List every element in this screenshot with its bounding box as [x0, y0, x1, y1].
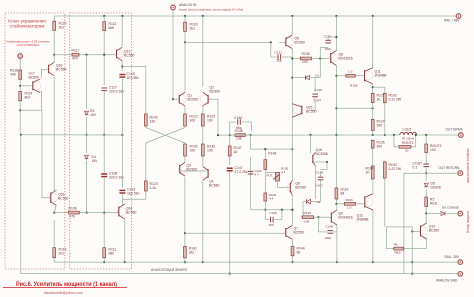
wire: Q6 emitter down: [291, 195, 293, 210]
terminal protection out: [458, 211, 463, 216]
svg-text:C145: C145: [270, 211, 278, 215]
wire: ROUT1 right riser: [415, 135, 417, 147]
junction R120/Q5 base line: [184, 41, 186, 43]
wire: C136 jog: [321, 169, 328, 171]
diode D6 C3EN5E: [441, 212, 445, 216]
wire: Q8col to R131: [336, 203, 343, 205]
wire: [319, 231, 328, 233]
junction R124 bottom: [372, 107, 374, 109]
svg-text:R117: R117: [72, 49, 80, 53]
junction left rail corner: [20, 134, 22, 136]
capacitor C122: [248, 171, 254, 174]
wire: return left drop: [403, 173, 405, 273]
junction C117 top: [103, 54, 105, 56]
wire: R144 to rail: [292, 257, 294, 262]
junction C121 tap: [270, 41, 272, 43]
junction feedback/R147: [229, 134, 231, 136]
resistor R144: [291, 245, 294, 257]
wire: X to R123: [145, 143, 147, 180]
resistor R123: [144, 180, 147, 193]
resistor R140: [201, 143, 204, 158]
wire: to Q10 base column: [386, 226, 412, 228]
capacitor COUT: [423, 164, 429, 167]
wire: R142 to Q3: [184, 158, 186, 163]
resistor R148: [264, 158, 267, 171]
transistor Q7 BC550: [285, 226, 293, 240]
capacitor C145: [271, 217, 274, 223]
junction mid rail/D3: [85, 134, 87, 136]
resistor R120: [184, 21, 187, 33]
wire: R132 to bias line: [264, 203, 266, 210]
resistor Rh: [392, 247, 405, 250]
wire: to Q17 emitter: [20, 109, 41, 111]
junction Q13 emitter: [121, 65, 123, 67]
wire: D5 to R2: [425, 189, 427, 196]
wire: D6 to terminal: [447, 213, 459, 215]
wire: to Q9 base: [319, 216, 331, 218]
wire: R111 to bottom rail: [103, 259, 105, 262]
transistor Q5 BC560: [285, 35, 293, 49]
terminal RAIL -28V: [458, 260, 463, 265]
junction out rail cross: [335, 134, 337, 136]
wire: riser to VAS line: [250, 135, 252, 149]
resistor ROUT2: [425, 143, 428, 155]
wire: R2 to node: [425, 208, 427, 214]
svg-text:LOUT: LOUT: [403, 128, 412, 132]
junction bias line/R132: [264, 209, 266, 211]
terminal OUT DRIVE: [459, 133, 464, 138]
wire: to R147: [229, 135, 231, 145]
wire: C146 left riser: [229, 122, 231, 135]
junction C145 right: [281, 209, 283, 211]
resistor R145: [301, 216, 315, 219]
wire: diagonal R143 to R142: [146, 128, 185, 144]
svg-text:Ключ управлениястабилизатором: Ключ управлениястабилизатором: [8, 19, 46, 29]
junction C136: [326, 161, 328, 163]
wire: Q19 emitter long down to Q18: [53, 77, 55, 192]
wire: emitter to R143 column: [122, 66, 146, 68]
wire: ROUT1 left riser: [393, 135, 395, 147]
junction out rail/Q16: [309, 134, 311, 136]
wire: R114 down: [19, 102, 21, 135]
junction bias/Q7: [291, 209, 293, 211]
wire: R121 to R140: [202, 128, 204, 143]
transistor Q6 BC560: [287, 180, 295, 195]
wire: C147 to analog gnd: [229, 171, 231, 274]
wire: Q10 base stub: [412, 230, 420, 232]
junction bias line: [103, 212, 105, 214]
capacitor C143: [119, 75, 125, 78]
junction R128 tap: [335, 75, 337, 77]
transistor Q9 BC64016: [331, 210, 337, 225]
svg-text:150: 150: [269, 223, 274, 227]
svg-text:56p: 56p: [236, 126, 242, 130]
resistor R122: [184, 113, 187, 128]
svg-text:1.0: 1.0: [347, 206, 352, 210]
wire: R123 bottom: [145, 193, 147, 200]
wire: C146 right: [242, 121, 252, 123]
junction VAS line: [291, 148, 293, 150]
wire: R147 to C147: [229, 158, 231, 166]
junction R114/Q17 emitter: [19, 109, 21, 111]
junction R131 tap: [335, 203, 337, 205]
wire: bias return line: [336, 107, 372, 109]
wire: R118 to R114: [19, 81, 21, 90]
svg-text:470: 470: [72, 57, 78, 61]
wire: bias line: [54, 212, 118, 214]
resistor R143: [144, 113, 147, 128]
junction D6 line: [425, 212, 427, 214]
svg-text:C125: C125: [324, 35, 332, 39]
svg-text:100: 100: [302, 60, 308, 64]
junction rail/Q13: [121, 15, 123, 17]
wire: analog ground rail: [21, 273, 459, 275]
resistor R131: [343, 202, 357, 205]
wire: C117 to mid rail: [103, 91, 105, 135]
svg-text:ANALOG GND: ANALOG GND: [436, 278, 458, 282]
transistor Q10 BC550: [419, 223, 427, 239]
wire: Q17 collector to Q19 base: [41, 69, 43, 78]
wire: to D5: [425, 173, 427, 181]
wire: C143 to C123: [121, 77, 123, 187]
wire: C136 to D2 line: [320, 180, 322, 202]
wire: Q1 base stub: [173, 98, 179, 100]
capacitor C146: [238, 119, 241, 125]
wire: C125 bottom: [320, 47, 328, 49]
junction D4/bias line: [86, 212, 88, 214]
capacitor C125: [325, 40, 331, 43]
svg-text:470: 470: [70, 215, 76, 219]
svg-text:Rh: Rh: [394, 243, 398, 247]
transistor Q12 2N6488: [365, 194, 373, 210]
junction D1 tap: [291, 77, 293, 79]
wire: R148 to R132: [264, 171, 266, 192]
svg-text:блоку защиты: блоку защиты: [466, 210, 470, 233]
capacitor C136: [318, 177, 324, 180]
svg-text:150p: 150p: [325, 236, 332, 240]
resistor R126: [371, 139, 374, 150]
wire: D3 to mid rail: [86, 117, 88, 135]
wire: Q5em to R135: [294, 58, 299, 60]
svg-text:OUT RETURN: OUT RETURN: [439, 166, 461, 170]
wire: R112 down to C117: [103, 32, 105, 85]
wire: node down to D3: [86, 55, 88, 109]
dashed block border: stabilizer key box: [5, 13, 65, 269]
wire: R128 to Q11 base: [357, 75, 364, 77]
capacitor C147: [227, 168, 233, 171]
wire: to Q16 collector: [310, 135, 312, 154]
wire: mid horizontal rail left: [21, 134, 123, 136]
terminal OUT RETURN: [458, 171, 463, 176]
svg-text:C148: C148: [326, 225, 334, 229]
junction analog gnd: [411, 273, 413, 275]
wire: to R103 top: [373, 86, 385, 88]
wire: C145 right riser: [281, 210, 283, 220]
wire: diagonal R122 to R123 column: [146, 128, 185, 144]
svg-text:RAIL +28V: RAIL +28V: [444, 19, 460, 23]
wire: to C138: [314, 78, 316, 92]
wire: R131 to Q12 base: [357, 203, 364, 205]
wire: Q5 base line: [185, 41, 271, 43]
resistor R124: [371, 92, 374, 104]
transistor Q4 BC560 (mirrored): [200, 167, 208, 181]
wire: R120 down: [184, 33, 186, 43]
wire: Q7 collector up: [292, 210, 294, 226]
svg-text:10: 10: [405, 149, 409, 153]
junction rail/Q2: [202, 15, 204, 17]
svg-text:акустический клемник: акустический клемник: [466, 148, 470, 183]
svg-text:13k: 13k: [236, 137, 242, 141]
wire: [265, 219, 269, 221]
trimmer PUT/R130: [273, 173, 280, 182]
resistor R2: [425, 196, 428, 208]
wire: long vertical to Q18 base: [41, 110, 43, 197]
wire: Q8 emitter long column: [335, 66, 337, 204]
wire: Q18 emitter: [54, 206, 56, 213]
wire: C108 to R111: [103, 177, 105, 246]
junction R135 tap: [291, 57, 293, 59]
wire: down to Q1 collector: [184, 42, 186, 92]
junction Q1 base: [172, 98, 174, 100]
wire: out rail to OUT DRIVE: [417, 134, 459, 136]
resistor R132: [264, 192, 267, 203]
resistor R141: [184, 245, 187, 259]
transistor Q3 BC560: [178, 162, 186, 176]
wire: COUT down: [425, 167, 427, 173]
junction analog gnd/C147: [229, 273, 231, 275]
wire: feedback line left: [218, 134, 234, 136]
wire: [303, 201, 307, 203]
wire: rail to Q8 collector: [335, 16, 337, 51]
wire: R103 top lead: [384, 87, 386, 92]
wire: R140 to Q4: [202, 158, 204, 167]
resistor R114: [19, 90, 22, 102]
wire: R145 to Q9 base: [315, 216, 319, 218]
wire: to D1: [292, 77, 304, 79]
wire: Q8 col to R128: [336, 75, 344, 77]
wire: to Q10 collector: [425, 214, 427, 224]
wire: down to R143: [145, 67, 147, 113]
capacitor C138: [312, 94, 318, 97]
wire: bias to Q14 base: [117, 212, 118, 214]
wire: rail to Q13 collector: [121, 16, 123, 47]
wire: Q7 base line: [185, 232, 285, 234]
resistor R117: [71, 53, 81, 56]
wire: rail to Q11 collector: [372, 16, 374, 68]
wire: bottom -28V rail: [54, 261, 458, 263]
svg-text:7R 12mH: 7R 12mH: [402, 136, 415, 140]
wire: Q18 base: [42, 197, 50, 199]
junction bottom rail/Q4: [202, 261, 204, 263]
transistor Q15 BC550 (mirrored): [292, 104, 302, 117]
wire: D1 right: [315, 77, 320, 79]
junction OUT RETURN: [425, 172, 427, 174]
wire: Q5 emitter column: [291, 49, 293, 150]
zener D2: [307, 199, 311, 203]
resistor R135: [299, 57, 313, 60]
wire: Q15 base stub: [309, 109, 316, 111]
transistor Q1 BC550: [178, 92, 186, 106]
svg-text:R128: R128: [350, 84, 358, 88]
svg-text:100: 100: [304, 219, 309, 223]
inductor LOUT: [400, 132, 417, 135]
wire: Q16 emitter down: [314, 166, 316, 199]
wire: C136 riser: [326, 162, 328, 170]
wire: output rail mid: [234, 134, 400, 136]
junction ROUT2 top: [425, 134, 427, 136]
junction feedback/C122 column: [250, 134, 252, 136]
wire: terminal to R118: [19, 59, 21, 69]
wire: RH12 column down: [385, 227, 387, 249]
wire: [264, 151, 266, 159]
junction C148 tap: [317, 216, 319, 218]
junction bottom rail/R111: [103, 261, 105, 263]
transistor Q16 BC3068: [313, 152, 316, 165]
svg-text:АНАЛОГОВАЯ ЗЕМЛЯ: АНАЛОГОВАЯ ЗЕМЛЯ: [151, 268, 187, 272]
svg-text:C138: C138: [315, 88, 323, 92]
wire: Q17 emitter down: [41, 91, 43, 111]
wire: Q2 emitter to R121: [202, 106, 204, 113]
junction out rail/R103: [384, 134, 386, 136]
wire: Q11 emitter down: [372, 84, 374, 92]
svg-text:R145: R145: [304, 211, 312, 215]
junction feedback/Q2 base: [217, 134, 219, 136]
wire: Q8col to Q9 collector: [336, 205, 338, 210]
wire: VAS horizontal: [251, 148, 293, 150]
wire: to R141: [184, 235, 186, 246]
resistor R116: [53, 246, 56, 259]
wire: [320, 171, 322, 177]
wire: to trimmer: [265, 172, 277, 174]
wire: C138 to Q15 base: [314, 97, 316, 110]
svg-text:R106: R106: [69, 206, 77, 210]
svg-text:RES: RES: [395, 250, 401, 254]
wire: R115 to node: [53, 32, 55, 55]
wire: R126 to R114: [372, 150, 374, 165]
resistor R121: [201, 113, 204, 128]
junction R148 top: [264, 148, 266, 150]
capacitor C148: [328, 231, 334, 234]
wire: trimmer down: [277, 181, 279, 187]
wire: Q9 emitter to rail: [336, 225, 338, 262]
wire: left vertical to analog gnd: [20, 135, 22, 274]
wire: [333, 231, 337, 233]
resistor R128: [344, 74, 356, 77]
junction Q10 base: [411, 230, 413, 232]
wire: to Q6 base: [278, 187, 290, 189]
wire: down to analog gnd: [411, 227, 413, 274]
svg-text:R131: R131: [346, 198, 354, 202]
wire: rail to Q5 collector: [291, 16, 293, 35]
wire: Q2 base right: [209, 98, 218, 100]
svg-text:PUT: PUT: [267, 174, 273, 178]
wire: rail to R112: [103, 16, 105, 20]
junction D1 column: [319, 57, 321, 59]
junction bottom rail: [411, 261, 413, 263]
transistor Q8 BC63916: [329, 51, 337, 66]
wire: C122 column: [250, 157, 252, 210]
terminal +12V internal: [18, 54, 23, 59]
terminal ANALOG GND: [458, 272, 463, 277]
junction rail/Q8: [335, 15, 337, 17]
junction ROUT1 left: [393, 134, 395, 136]
resistor R112: [103, 20, 106, 32]
capacitor C121: [278, 54, 281, 60]
wire: [311, 201, 321, 203]
wire: [275, 219, 282, 221]
svg-text:ANALOG IN: ANALOG IN: [179, 3, 197, 7]
wire: R123/C123 join: [122, 198, 145, 200]
resistor R119: [335, 187, 338, 201]
svg-text:ROUT1: ROUT1: [402, 141, 414, 145]
wire: C125 to base node: [319, 52, 321, 59]
svg-text:150p: 150p: [325, 47, 332, 51]
wire: Rh line: [386, 248, 426, 250]
wire: node down to Q19 collector: [53, 55, 55, 63]
resistor R146: [234, 134, 247, 137]
wire: R124 to out rail: [372, 104, 374, 135]
junction bottom rail/R144: [291, 261, 293, 263]
junction R115/R117: [53, 54, 55, 56]
wire: to Q19 base: [42, 69, 48, 71]
resistor R111: [103, 246, 106, 259]
wire: Q16 base line: [314, 161, 327, 163]
svg-text:0.047: 0.047: [314, 99, 322, 103]
junction bias return: [335, 107, 337, 109]
wire: R117 to Q13 base: [81, 54, 116, 56]
wire: Q3/Q4 base tie: [181, 170, 207, 172]
svg-text:D6 C3EN5E: D6 C3EN5E: [442, 206, 459, 210]
terminal RAIL +28V: [456, 14, 461, 19]
junction rail/Q11: [372, 15, 374, 17]
junction C143 column/mid rail: [121, 134, 123, 136]
junction R118/Q17 base: [19, 85, 21, 87]
resistor R103: [383, 92, 386, 104]
junction out rail: [372, 134, 374, 136]
wire: Q13 emitter down: [121, 61, 123, 71]
junction bias line/Q6: [291, 209, 293, 211]
wire: R103 to out rail: [384, 104, 386, 135]
resistor R142: [184, 143, 187, 158]
wire: R116 bottom corner: [53, 259, 55, 262]
wire: Q7 emitter: [292, 240, 294, 246]
junction bottom rail/Q12: [372, 261, 374, 263]
transistor Q14 BC560: [118, 204, 126, 219]
wire: to Q17 base: [20, 85, 31, 87]
svg-text:C146: C146: [234, 116, 242, 120]
wire: D2 left down: [302, 202, 304, 217]
wire: to Q5 base: [279, 41, 285, 43]
junction ROUT1 right: [415, 134, 417, 136]
svg-text:R148: R148: [268, 152, 276, 156]
wire: rail to R120: [184, 16, 186, 21]
svg-text:OUT DRIVE: OUT DRIVE: [446, 128, 463, 132]
junction C125/Q8: [335, 36, 337, 38]
svg-text:RAIL -28V: RAIL -28V: [445, 255, 460, 259]
wire: to ROUT2: [425, 135, 427, 143]
wire: R146 right: [247, 134, 251, 136]
wire: down to C108: [103, 135, 105, 174]
transistor Q19 BC559: [47, 62, 55, 76]
svg-text:C121: C121: [275, 51, 283, 55]
wire: analog in down to Q1 base: [172, 10, 174, 99]
wire: down to D4: [86, 135, 88, 153]
transistor Q2 BC550 (mirrored): [200, 92, 208, 106]
svg-text:0.047: 0.047: [315, 184, 323, 188]
dashed block border: input stage box: [70, 13, 132, 269]
wire: [301, 216, 303, 218]
wire: C146 right riser: [251, 122, 253, 131]
